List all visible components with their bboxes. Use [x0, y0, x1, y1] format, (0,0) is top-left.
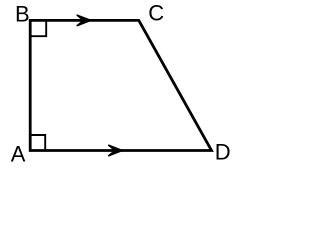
svg-text:D: D: [215, 140, 231, 165]
arrow on AD: [109, 145, 123, 155]
svg-text:B: B: [15, 2, 30, 27]
right angle mark at B: [30, 20, 46, 36]
trapezoid outline A-B-C-D (wires): [30, 20, 211, 150]
right angle mark at A: [30, 135, 45, 151]
svg-text:A: A: [11, 142, 26, 167]
svg-text:C: C: [148, 0, 164, 25]
arrow on BC: [77, 15, 91, 25]
